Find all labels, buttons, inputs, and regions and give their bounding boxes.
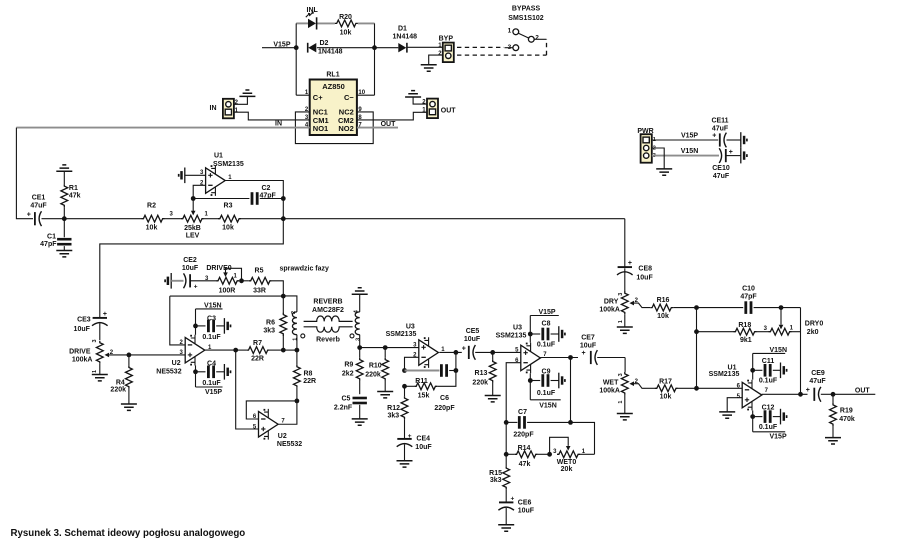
resistor R1 47k [61,171,81,218]
svg-text:OUT: OUT [855,387,871,394]
wire left coil vertical C+ [295,23,297,95]
svg-text:10k: 10k [660,394,672,401]
svg-text:47k: 47k [519,461,531,468]
relay RL1 pin stubs and numbers [296,90,374,129]
node R18 left [694,329,699,334]
pin labels U3a [413,342,445,358]
potentiometer DRY 100kA [599,291,650,323]
node summing top [694,305,699,310]
ground R10 [377,392,393,398]
wire DRIVE wiper to U2 plus input [129,354,185,356]
svg-text:R17: R17 [659,379,672,386]
svg-text:RL1: RL1 [326,72,339,79]
svg-text:SSM2135: SSM2135 [213,161,244,168]
svg-text:NE5532: NE5532 [277,441,302,448]
ground below C1 [56,251,72,257]
ground DRIVE [92,375,108,381]
svg-text:OUT: OUT [441,108,457,115]
svg-text:47uF: 47uF [713,173,730,180]
svg-text:10uF: 10uF [182,265,199,272]
wire U1 output [225,181,283,199]
svg-text:R1: R1 [69,185,78,192]
resistor R9 2k2 [342,348,363,395]
wire CE2 to DRIVE0 [191,276,216,282]
power rail mark U1 plus input [179,168,206,184]
svg-text:+: + [194,283,198,290]
svg-text:+: + [806,387,810,394]
wire DRY bottom to ground [624,314,626,327]
svg-text:BYPASS: BYPASS [512,6,541,13]
node C7 right [568,420,573,425]
svg-text:U2: U2 [172,360,181,367]
wire dry node to CE3 branch [100,219,283,318]
resistor R14 47k [506,422,549,467]
svg-text:SSM2135: SSM2135 [386,331,417,338]
wire main row to R2 [64,218,141,220]
label R4 [110,379,126,393]
resistor R16 10k [650,297,696,320]
wire BYP pin2 to ground [429,55,443,65]
svg-text:WET0: WET0 [557,459,577,466]
svg-text:R7: R7 [253,340,262,347]
svg-text:R13: R13 [475,370,488,377]
connector IN [210,99,239,119]
svg-text:C9: C9 [542,369,551,376]
capacitor CE2 10uF [165,257,199,290]
svg-text:INL: INL [307,7,319,14]
capacitor C3 0.1uF [196,315,225,341]
wire OUT pin2 to ground [413,97,427,104]
svg-text:Rysunek 3. Schemat ideowy pogł: Rysunek 3. Schemat ideowy pogłosu analog… [11,528,246,539]
svg-text:CE10: CE10 [712,165,730,172]
svg-text:R20: R20 [339,14,352,21]
svg-text:CE11: CE11 [711,117,728,124]
power terminal C9 right [559,373,565,389]
svg-text:10uF: 10uF [415,444,432,451]
wire input column [16,128,33,219]
svg-text:R2: R2 [147,203,156,210]
svg-text:47uF: 47uF [712,126,729,133]
wire C7 node to WET0 right [571,422,595,454]
wire U2a inverting feedback [170,296,185,345]
wire feedback to U2a [170,295,283,297]
svg-text:+: + [628,260,632,267]
ground C5 [352,419,368,425]
transformer REVERB AMC28F2 primary [291,311,305,350]
svg-text:3: 3 [355,338,361,341]
svg-text:C11: C11 [762,358,775,365]
wire R7 node to primary bottom [283,349,297,351]
node U1b output [798,392,803,397]
svg-text:U2: U2 [278,433,287,440]
wire LEV to R3 [204,218,218,220]
svg-text:10k: 10k [340,30,352,37]
ground BYP [421,65,437,71]
svg-text:LEV: LEV [186,232,200,239]
resistor R15 3k3 [489,454,509,502]
svg-text:V15P: V15P [205,389,222,396]
svg-text:2k0: 2k0 [807,329,819,336]
resistor R7 22R [236,340,284,363]
svg-text:C2: C2 [262,185,271,192]
svg-text:2: 2 [291,311,297,314]
resistor R2 10k [142,203,165,232]
wire D2 to D1 [317,47,398,49]
transformer REVERB secondary [350,294,361,347]
capacitor C5 2.2nF [334,395,367,419]
svg-text:1N4148: 1N4148 [393,33,418,40]
wire output down to R11 [437,352,456,386]
wire main dry line [283,218,625,220]
svg-text:C5: C5 [341,395,350,402]
wire V15N to C11 [752,353,754,379]
svg-text:R12: R12 [387,405,400,412]
svg-text:DRIVE: DRIVE [69,349,91,356]
resistor R5 33R [242,268,272,295]
potentiometer WET0 20k [550,437,595,473]
svg-text:10uF: 10uF [464,336,481,343]
node LEV wiper feedback [191,196,196,201]
svg-text:CE1: CE1 [32,195,46,202]
node R8 bottom U2b output [295,399,300,404]
ground WET [617,414,633,420]
wire U1b plus input to ground [727,398,742,412]
svg-text:0.1uF: 0.1uF [202,334,221,341]
svg-text:SSM2135: SSM2135 [709,371,740,378]
capacitor C7 220pF [506,409,570,438]
svg-text:220pF: 220pF [513,431,534,438]
svg-text:R5: R5 [255,268,264,275]
svg-text:V15N: V15N [770,347,788,354]
svg-text:PWR: PWR [637,128,653,135]
reverb tank coupling coils [304,316,353,332]
wire feedback right column [800,308,802,395]
svg-text:R10: R10 [369,362,382,369]
svg-text:47uF: 47uF [30,203,47,210]
node C12 tap [750,414,755,419]
svg-text:100kA: 100kA [599,387,620,394]
capacitor CE3 10uF [74,311,108,340]
svg-text:R9: R9 [344,362,353,369]
svg-text:33R: 33R [253,287,266,294]
wire dashed BYP pin1 to switch pin3 [457,46,504,48]
wire C6 row left [405,370,440,372]
power terminal CE10 right [741,148,747,164]
svg-text:25kB: 25kB [184,225,201,232]
wire WET top from CE7 [618,372,628,404]
wire C4 to V15P rail [195,366,197,388]
svg-text:C6: C6 [440,395,449,402]
svg-text:15k: 15k [418,392,430,399]
node R10 tap [383,345,388,350]
svg-text:R3: R3 [224,203,233,210]
pin labels U2a [180,340,212,356]
svg-text:D2: D2 [320,40,329,47]
capacitor CE1 47uF [27,195,65,227]
node C6 left [402,368,407,373]
wire summing node to U1b [697,387,743,389]
svg-text:10uF: 10uF [74,326,91,333]
svg-text:10k: 10k [657,313,669,320]
svg-text:V15P: V15P [538,309,555,316]
svg-text:22R: 22R [303,378,316,385]
net rail V15N above C11 [753,347,787,354]
svg-text:+: + [712,133,716,140]
svg-text:3: 3 [618,293,624,296]
svg-text:R4: R4 [116,379,125,386]
svg-text:2k2: 2k2 [342,370,354,377]
svg-text:NO2: NO2 [338,124,353,133]
text sprawdzic fazy [280,266,330,273]
svg-text:BYP: BYP [439,36,454,43]
node R4 tap [126,353,131,358]
svg-text:3: 3 [92,339,98,342]
wire R5 to reverb node [272,281,284,296]
wire R2 to LEV [165,218,181,220]
svg-text:V15N: V15N [539,402,557,409]
resistor R20 [335,14,358,36]
svg-text:OUT: OUT [381,121,397,128]
svg-text:V15P: V15P [770,434,787,441]
wire summing column [696,308,698,389]
node C8 tap [528,332,533,337]
resistor R4 220k [125,355,132,404]
svg-text:+: + [103,311,107,318]
wire C2 to output node [260,198,284,200]
svg-text:U1: U1 [214,153,223,160]
capacitor CE9 47uF [806,370,833,402]
svg-text:3k3: 3k3 [490,477,502,484]
svg-text:47pF: 47pF [740,293,757,300]
svg-text:NE5532: NE5532 [156,369,181,376]
ground CE4 [397,461,413,467]
capacitor C4 0.1uF [196,360,225,387]
capacitor C9 0.1uF [530,369,559,397]
svg-text:Reverb: Reverb [316,337,340,344]
op-amp U3 SSM2135 recovery B [496,325,541,374]
svg-text:47uF: 47uF [809,378,826,385]
power terminal CE11 right [741,132,747,148]
capacitor C10 47pF [740,285,757,314]
svg-text:C−: C− [344,93,354,102]
svg-text:+: + [582,350,586,357]
wire U1b output [762,393,808,395]
wire PWR pin1 V15P rail [652,133,718,140]
wire node to primary top [283,296,297,312]
wire C9 to V15N rail [529,373,531,400]
svg-text:10uF: 10uF [580,343,597,350]
resistor R11 15k [405,378,438,399]
wire NO2 net OUT stub [357,127,398,129]
ground R13 [485,396,501,402]
svg-text:CE5: CE5 [466,328,480,335]
capacitor C6 220pF [434,364,455,412]
wire feedback row to C2 [193,198,249,200]
svg-text:CE9: CE9 [811,370,825,377]
net rail V15P below C12 [753,432,787,441]
svg-text:10uF: 10uF [518,508,535,515]
op-amp U3 SSM2135 recovery A [386,323,439,368]
svg-text:10k: 10k [222,225,234,232]
svg-text:0.1uF: 0.1uF [759,378,778,385]
svg-text:+: + [729,149,733,156]
op-amp U1 SSM2135 input buffer [206,153,244,196]
svg-text:100kA: 100kA [72,357,93,364]
wire secondary to U3a [360,347,419,349]
wire C10 row [697,307,744,309]
node primary bottom R8 top [295,348,300,353]
wire U2a output to R7 node [205,349,236,351]
svg-text:WET: WET [603,380,619,387]
resistor R19 470k [830,394,855,437]
svg-text:IN: IN [275,121,282,128]
svg-text:CE6: CE6 [518,499,532,506]
svg-text:REVERB: REVERB [313,298,342,305]
svg-text:0.1uF: 0.1uF [537,342,556,349]
ground OUT connector [405,91,421,97]
svg-text:V15N: V15N [204,303,222,310]
node R6 bottom [281,348,286,353]
svg-text:R18: R18 [738,322,751,329]
wire PWR pin2 to ground [652,148,664,169]
wire U2b output up [279,401,297,424]
power terminal C8 right [559,326,565,342]
svg-text:+: + [27,212,31,219]
connector PWR [637,128,656,163]
net rail V15P above C8 [530,309,559,316]
pin labels U2b [253,414,286,431]
svg-text:AZ850: AZ850 [322,82,345,91]
wire right coil vertical C- [374,23,376,95]
svg-text:C3: C3 [207,315,216,322]
svg-text:9k1: 9k1 [740,337,752,344]
svg-text:0.1uF: 0.1uF [202,380,221,387]
node R13 tap [490,350,495,355]
svg-text:U3: U3 [513,325,522,332]
connector OUT [422,99,456,119]
svg-text:C4: C4 [207,360,216,367]
wire CE5 to U3b [493,351,521,353]
svg-text:SMS1S102: SMS1S102 [508,15,544,22]
wire NO1 net IN [16,127,309,129]
wire CE7 to WET pot [624,358,626,372]
potentiometer WET 100kA wiper [599,379,645,395]
svg-text:CE4: CE4 [416,436,430,443]
op-amp U2 NE5532 reverb driver B [259,409,303,448]
capacitor CE4 10uF [397,433,433,461]
resistor R6 3k3 [263,296,286,350]
node C6 right [454,368,459,373]
net rail V15N above C3 [196,303,223,310]
pin labels U1b [737,384,769,401]
LED INL [306,7,319,29]
svg-text:NO1: NO1 [313,124,328,133]
svg-text:100R: 100R [219,287,236,294]
ground CE6 [498,525,514,531]
net label IN [275,121,282,128]
svg-text:220k: 220k [110,387,126,394]
svg-text:C8: C8 [542,321,551,328]
ground reverb secondary top [352,288,368,294]
resistor R10 220k [365,348,388,392]
svg-text:3k3: 3k3 [388,412,400,419]
power terminal C11 right [781,363,787,379]
svg-text:SSM2135: SSM2135 [496,332,527,339]
pin labels U3b [515,347,547,364]
svg-text:470k: 470k [839,416,855,423]
svg-text:AMC28F2: AMC28F2 [312,307,344,314]
wire WET bottom to ground [624,395,626,414]
ground R19 [825,438,841,444]
svg-text:10k: 10k [146,225,158,232]
ground R4 [121,404,137,410]
resistor R12 3k3 [387,386,408,438]
svg-text:U3: U3 [406,323,415,330]
wire OUT [833,387,875,394]
resistor R17 10k [646,379,697,401]
svg-text:R8: R8 [304,370,313,377]
label REVERB AMC28F2 [312,298,344,343]
ground DRY [617,327,633,333]
wire D1 to BYP [408,46,443,48]
net V15P [262,41,296,48]
ground PWR [656,169,672,175]
wire U1 inverting input to feedback [193,185,205,198]
wire U3b inverting down [506,363,521,423]
caption [11,528,246,539]
net rail V15P below C4 [196,387,223,396]
wire C12 to V15P rail [752,411,754,432]
svg-text:47pF: 47pF [40,241,57,248]
node C4 tap [193,369,198,374]
op-amp U1 SSM2135 output mixer [709,365,762,411]
svg-text:DRY: DRY [604,299,619,306]
node C7 left [504,420,509,425]
svg-text:CE7: CE7 [581,334,595,341]
svg-text:100kA: 100kA [599,306,620,313]
svg-text:3: 3 [618,373,624,376]
resistor R18 9k1 [697,322,769,344]
node V15P junction [294,45,299,50]
ground IN connector [239,90,255,96]
capacitor CE10 47uF [712,148,741,180]
svg-text:V15N: V15N [681,148,699,155]
svg-text:3k3: 3k3 [263,327,275,334]
svg-text:sprawdzic fazy: sprawdzic fazy [280,266,330,273]
wire output column to C7 [570,358,572,423]
wire DRIVE bottom to ground [99,364,101,375]
wire IN pin1 to CM1 [234,112,310,120]
resistor R13 220k [472,352,496,395]
node U2a output [233,348,238,353]
capacitor CE5 10uF [462,328,493,360]
resistor R3 10k [218,203,241,232]
ground above R1 [56,165,72,171]
svg-text:2.2nF: 2.2nF [334,405,353,412]
node R19 tap [831,392,836,397]
power terminal C4 right [224,364,230,380]
connector BYP [438,36,454,63]
net label OUT at relay [381,121,397,128]
svg-text:2: 2 [535,35,539,42]
switch BYPASS SMS1S102 [505,6,547,51]
node R14 left [504,452,509,457]
capacitor CE6 10uF [498,496,534,525]
svg-text:R6: R6 [266,319,275,326]
op-amp U2 NE5532 reverb driver A [156,335,204,376]
capacitor C8 0.1uF [530,321,559,349]
node U3b output [568,355,573,360]
